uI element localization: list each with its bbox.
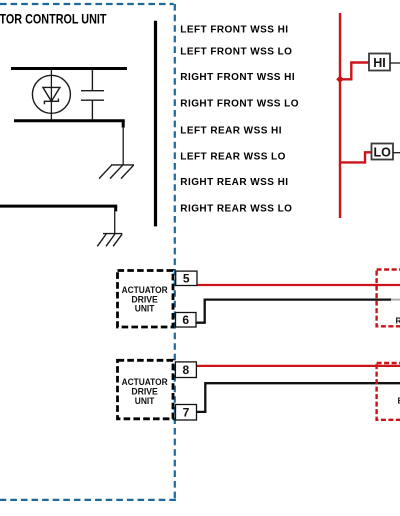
wire third bus bar — [0, 205, 117, 208]
svg-text:RIGHT FRONT WSS LO: RIGHT FRONT WSS LO — [180, 99, 299, 110]
sensor box 2 (red dashed, clipped right) — [377, 363, 400, 420]
svg-text:ACTUATOR: ACTUATOR — [122, 377, 168, 387]
wire from LO box — [393, 152, 400, 154]
pin 8 — [175, 362, 196, 378]
svg-text:UNIT: UNIT — [135, 304, 155, 314]
svg-text:6: 6 — [182, 313, 189, 327]
junction diamond — [336, 76, 344, 84]
actuator drive unit 1 (dashed box) — [118, 271, 174, 328]
terminal box LO — [372, 144, 394, 160]
wire red sensor bus (vertical) — [339, 13, 341, 218]
wire diode vertical — [50, 70, 52, 119]
svg-text:8: 8 — [183, 363, 190, 377]
wire black from pin 7 — [197, 383, 400, 412]
svg-text:LO: LO — [374, 145, 392, 159]
svg-text:TOR CONTROL UNIT: TOR CONTROL UNIT — [0, 11, 107, 27]
svg-text:LEFT REAR WSS HI: LEFT REAR WSS HI — [180, 125, 282, 136]
svg-text:ACTUATOR: ACTUATOR — [122, 285, 168, 295]
wire red from pin 8 — [196, 365, 400, 367]
pin 6 — [176, 313, 197, 328]
svg-text:RIGHT REAR WSS LO: RIGHT REAR WSS LO — [180, 204, 292, 215]
wire black from pin 6 — [197, 300, 392, 323]
svg-text:LEFT FRONT WSS HI: LEFT FRONT WSS HI — [180, 25, 288, 36]
ground G2 — [97, 234, 122, 247]
svg-text:RIGHT: RIGHT — [396, 316, 400, 326]
svg-text:5: 5 — [183, 272, 190, 286]
wire from HI box — [390, 62, 400, 64]
wire gray tail — [391, 299, 400, 301]
pin 7 — [176, 405, 197, 421]
terminal box HI — [369, 54, 390, 71]
wire LO branch — [340, 152, 372, 162]
svg-text:RIGHT FRONT WSS HI: RIGHT FRONT WSS HI — [180, 72, 295, 83]
svg-text:LEFT FRONT WSS LO: LEFT FRONT WSS LO — [180, 47, 292, 58]
svg-text:UNIT: UNIT — [135, 396, 155, 406]
wire lower bus right drop — [122, 121, 125, 128]
svg-text:7: 7 — [183, 406, 190, 420]
zener diode D1 (circled) — [32, 75, 70, 113]
ground G1 — [99, 165, 134, 179]
wire third bus right drop — [114, 206, 117, 211]
sensor box 1 (red dashed, clipped right) — [377, 270, 400, 327]
wire vertical bus bar — [154, 21, 157, 227]
actuator drive unit 2 (dashed box) — [118, 360, 174, 419]
svg-text:RIGHT REAR WSS HI: RIGHT REAR WSS HI — [180, 177, 288, 188]
wire to ground 2 — [114, 211, 116, 234]
wire top bus bar — [11, 67, 127, 70]
pin 5 — [176, 271, 197, 285]
wire lower bus bar — [14, 119, 125, 122]
svg-text:HI: HI — [373, 56, 386, 70]
svg-text:LEFT REAR WSS LO: LEFT REAR WSS LO — [180, 151, 286, 162]
capacitor C1 — [81, 70, 104, 119]
wire red from pin 5 — [197, 284, 400, 286]
wire to ground 1 — [122, 127, 124, 165]
wire HI branch — [340, 63, 369, 80]
actuator control unit boundary (blue dashed box) — [0, 4, 176, 500]
